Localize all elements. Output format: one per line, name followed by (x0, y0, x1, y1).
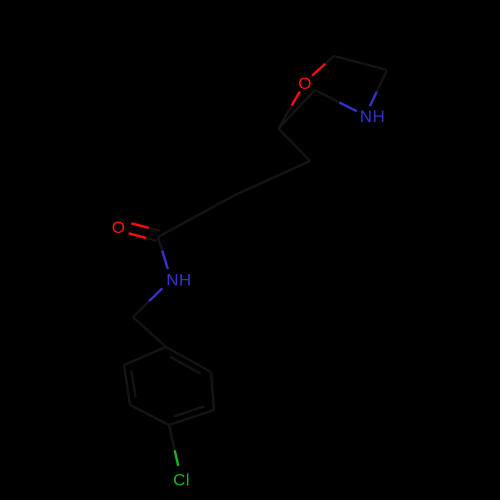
svg-text:NH: NH (360, 107, 385, 126)
svg-text:O: O (112, 218, 126, 237)
svg-text:NH: NH (166, 270, 191, 289)
svg-text:O: O (298, 74, 312, 93)
svg-text:Cl: Cl (173, 470, 190, 489)
